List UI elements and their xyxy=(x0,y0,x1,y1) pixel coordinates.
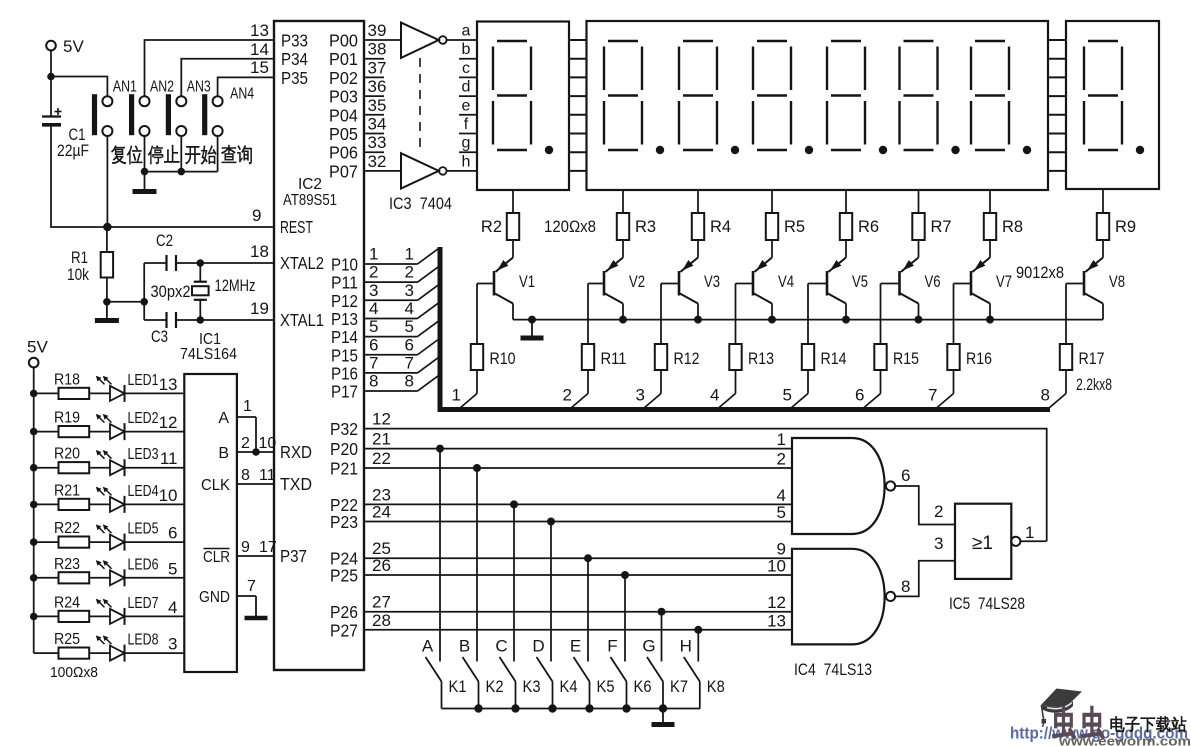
pin stub P04 (35) xyxy=(364,96,386,115)
svg-text:6: 6 xyxy=(855,386,864,405)
svg-text:8: 8 xyxy=(901,577,910,596)
svg-text:13: 13 xyxy=(250,21,269,40)
svg-text:6: 6 xyxy=(901,466,910,485)
svg-text:CLK: CLK xyxy=(201,477,230,494)
svg-text:AN3: AN3 xyxy=(187,79,211,96)
resistor R17 xyxy=(1060,344,1105,394)
svg-text:9012x8: 9012x8 xyxy=(1016,264,1064,282)
svg-text:LED3: LED3 xyxy=(128,446,159,463)
wire tap 8 to bus xyxy=(1041,386,1066,409)
wire tap 6 to bus xyxy=(855,386,880,409)
svg-text:V6: V6 xyxy=(925,273,941,291)
wire P27 line (pin 28) xyxy=(364,611,792,631)
wire node F drop xyxy=(607,571,629,662)
7-segment display module middle (6 digits) xyxy=(587,21,1049,190)
transistor V7 xyxy=(954,240,1013,344)
svg-text:LED1: LED1 xyxy=(128,372,159,389)
svg-text:XTAL2: XTAL2 xyxy=(280,253,324,273)
svg-text:d: d xyxy=(462,79,471,96)
pushbutton AN4 查询 xyxy=(202,86,254,165)
svg-text:www.eeworm.com: www.eeworm.com xyxy=(1058,734,1191,746)
svg-text:K7: K7 xyxy=(670,678,688,696)
svg-text:7: 7 xyxy=(369,353,378,372)
svg-text:28: 28 xyxy=(372,611,391,630)
svg-text:P20: P20 xyxy=(330,439,358,459)
wire node B drop xyxy=(459,464,481,662)
resistor R25 xyxy=(34,631,110,659)
bus thick line P10-P17 xyxy=(440,247,1050,410)
svg-text:K5: K5 xyxy=(597,678,615,696)
svg-text:≥1: ≥1 xyxy=(972,533,993,554)
svg-text:P03: P03 xyxy=(329,87,358,107)
svg-text:1: 1 xyxy=(243,398,252,415)
resistor R24 xyxy=(30,594,110,622)
svg-text:5V: 5V xyxy=(27,338,48,357)
wire P35 pin15 to AN4 xyxy=(218,58,274,96)
svg-text:P32: P32 xyxy=(330,419,358,439)
svg-text:R13: R13 xyxy=(748,350,774,368)
wire IC4a output 6 to IC5 xyxy=(895,466,955,525)
svg-text:R19: R19 xyxy=(54,410,80,427)
svg-text:IC5 74LS28: IC5 74LS28 xyxy=(949,594,1025,613)
svg-text:GND: GND xyxy=(199,589,230,606)
svg-text:R11: R11 xyxy=(601,350,627,368)
resistor R11 xyxy=(582,344,627,394)
crystal 12MHz xyxy=(192,259,256,324)
7-seg digit 3 xyxy=(679,41,739,154)
svg-text:g: g xyxy=(462,135,471,152)
svg-text:R22: R22 xyxy=(54,520,80,537)
7-seg digit 7 xyxy=(971,41,1031,154)
wire tap 4 to bus xyxy=(710,386,735,409)
7-seg digit 1 xyxy=(493,41,553,154)
wire tap 3 to bus xyxy=(636,386,661,409)
svg-text:8: 8 xyxy=(405,372,414,391)
svg-text:E: E xyxy=(570,637,581,656)
resistor R5 xyxy=(766,190,805,240)
svg-text:V3: V3 xyxy=(704,273,720,291)
svg-text:100Ωx8: 100Ωx8 xyxy=(50,664,98,681)
svg-text:30px2: 30px2 xyxy=(151,283,191,301)
ground below buttons xyxy=(133,172,157,192)
resistor R23 xyxy=(30,556,110,584)
svg-text:IC2: IC2 xyxy=(298,176,322,193)
svg-text:P06: P06 xyxy=(329,143,358,163)
resistor R7 xyxy=(912,190,951,240)
7-seg digit 5 xyxy=(827,41,887,154)
wire 5V down to junction xyxy=(47,50,55,80)
svg-text:P13: P13 xyxy=(331,309,358,329)
svg-text:REST: REST xyxy=(280,217,313,237)
svg-text:11: 11 xyxy=(259,467,276,484)
IC1 CLR wire to P37 xyxy=(203,539,277,566)
svg-text:8: 8 xyxy=(369,372,378,391)
svg-text:AT89S51: AT89S51 xyxy=(283,192,337,209)
svg-text:G: G xyxy=(642,637,655,656)
svg-text:12: 12 xyxy=(372,410,391,429)
svg-text:13: 13 xyxy=(159,375,178,394)
switch K1 xyxy=(426,657,467,709)
svg-text:e: e xyxy=(462,97,471,114)
svg-text:AN4: AN4 xyxy=(230,86,254,103)
wire tap 1 to bus xyxy=(452,386,477,409)
svg-text:39: 39 xyxy=(368,21,387,40)
svg-text:27: 27 xyxy=(372,593,391,612)
LED LED3 xyxy=(96,446,185,476)
svg-text:33: 33 xyxy=(368,133,387,152)
svg-text:AN2: AN2 xyxy=(150,79,174,96)
switch K3 xyxy=(500,657,541,709)
svg-text:2: 2 xyxy=(405,263,414,282)
wire segment stub f xyxy=(459,133,477,135)
node 5V supply LEDs xyxy=(27,338,48,654)
IC1 GND pin xyxy=(199,578,268,618)
IC2 left pin names xyxy=(280,31,324,567)
svg-text:P23: P23 xyxy=(330,512,358,532)
pushbutton AN1 复位 xyxy=(92,79,142,165)
svg-text:R5: R5 xyxy=(784,218,805,236)
svg-text:P25: P25 xyxy=(330,566,358,586)
svg-text:8: 8 xyxy=(1041,386,1050,405)
wire node C drop xyxy=(495,500,518,661)
svg-text:R6: R6 xyxy=(858,218,879,236)
svg-text:74LS164: 74LS164 xyxy=(180,346,237,363)
svg-text:14: 14 xyxy=(250,40,269,59)
pushbutton AN3 开始 xyxy=(166,79,217,165)
resistor R13 xyxy=(729,344,774,394)
resistor R12 xyxy=(655,344,700,394)
svg-text:LED2: LED2 xyxy=(128,410,159,427)
svg-text:R15: R15 xyxy=(893,350,919,368)
svg-text:37: 37 xyxy=(368,58,387,77)
svg-text:R7: R7 xyxy=(931,218,952,236)
wire inverter a output to display xyxy=(447,39,477,41)
svg-text:C: C xyxy=(495,637,507,656)
IC1 pin A wire xyxy=(218,398,256,452)
wire AN2-AN4 bottoms common xyxy=(141,136,218,175)
svg-text:9: 9 xyxy=(241,539,250,556)
svg-text:R20: R20 xyxy=(54,446,80,463)
svg-text:R2: R2 xyxy=(481,218,502,236)
svg-text:1: 1 xyxy=(1025,523,1034,542)
wire inverter h output to display xyxy=(447,170,477,172)
svg-text:3: 3 xyxy=(405,281,414,300)
svg-text:P27: P27 xyxy=(330,620,358,640)
watermark text dianzi xiazaizhan xyxy=(1111,716,1125,731)
wire P07 to inverter xyxy=(364,152,401,171)
svg-text:R10: R10 xyxy=(490,350,516,368)
svg-text:12MHz: 12MHz xyxy=(215,277,256,295)
wire ladder between display1 and display2 xyxy=(569,40,587,171)
7-segment display module 8 xyxy=(1066,21,1159,189)
svg-text:P04: P04 xyxy=(329,105,358,125)
svg-text:P15: P15 xyxy=(331,345,358,365)
wire tap 5 to bus xyxy=(783,386,808,409)
svg-text:V1: V1 xyxy=(519,273,535,291)
svg-text:b: b xyxy=(462,41,471,58)
wire P16 to bus xyxy=(364,353,439,373)
ground on collector bus xyxy=(521,320,544,338)
svg-text:5: 5 xyxy=(783,386,792,405)
svg-text:21: 21 xyxy=(372,430,391,449)
svg-text:P11: P11 xyxy=(331,273,358,293)
transistor V3 xyxy=(661,240,720,344)
wire node G drop xyxy=(642,608,665,662)
7-seg digit 6 xyxy=(900,41,960,154)
svg-text:V5: V5 xyxy=(852,273,868,291)
svg-text:9: 9 xyxy=(252,206,261,225)
resistor R9 xyxy=(1097,189,1136,240)
svg-text:3: 3 xyxy=(369,281,378,300)
pin stub P01 (38) xyxy=(364,40,386,59)
svg-text:A: A xyxy=(218,410,229,427)
svg-text:3: 3 xyxy=(934,534,943,553)
svg-text:2: 2 xyxy=(563,386,572,405)
svg-text:LED7: LED7 xyxy=(128,595,159,612)
svg-text:10: 10 xyxy=(767,557,786,576)
svg-text:K1: K1 xyxy=(449,678,467,696)
svg-text:K6: K6 xyxy=(634,678,652,696)
wire C1 to REST rail xyxy=(51,125,274,227)
svg-text:8: 8 xyxy=(241,467,250,484)
inverter IC3b xyxy=(401,153,447,188)
transistor V8 xyxy=(1066,240,1125,344)
wire P33 pin13 to AN2 xyxy=(145,21,275,96)
svg-text:K8: K8 xyxy=(707,678,725,696)
svg-text:K2: K2 xyxy=(486,678,504,696)
svg-text:LED4: LED4 xyxy=(128,483,159,500)
svg-text:R4: R4 xyxy=(710,218,731,236)
svg-text:1: 1 xyxy=(405,245,414,264)
wire segment stub b xyxy=(459,58,477,60)
transistor V1 xyxy=(477,240,535,344)
wire P15 to bus xyxy=(364,335,439,355)
svg-text:2.2kx8: 2.2kx8 xyxy=(1076,376,1112,394)
svg-text:2: 2 xyxy=(777,450,786,469)
resistor R21 xyxy=(30,482,110,510)
NAND gate IC4b xyxy=(792,549,895,645)
LED LED5 xyxy=(96,521,185,551)
resistor R14 xyxy=(802,344,847,394)
wire P25 line (pin 26) xyxy=(364,556,792,576)
wire segment stub e xyxy=(459,114,477,116)
resistor R15 xyxy=(874,344,919,394)
wire AN1 bottom to REST rail xyxy=(103,136,111,231)
wire tap 7 to bus xyxy=(928,386,953,409)
svg-text:10k: 10k xyxy=(67,266,90,284)
LED LED8 xyxy=(96,632,185,662)
resistor R8 xyxy=(984,190,1023,240)
svg-text:LED8: LED8 xyxy=(128,632,159,649)
wire P17 to bus xyxy=(364,372,439,392)
svg-text:4: 4 xyxy=(168,598,177,617)
svg-text:10: 10 xyxy=(259,435,277,452)
svg-text:36: 36 xyxy=(368,77,387,96)
svg-text:B: B xyxy=(218,445,229,462)
svg-text:P26: P26 xyxy=(330,602,358,622)
node 5V supply top-left xyxy=(46,37,84,56)
wire P10 to bus xyxy=(364,245,439,265)
shift register IC1 74LS164 xyxy=(180,331,237,672)
7-seg digit 2 xyxy=(604,41,664,154)
svg-text:120Ωx8: 120Ωx8 xyxy=(544,218,596,236)
svg-text:7: 7 xyxy=(247,578,256,595)
wire P22 line (pin 23) xyxy=(364,485,792,505)
LED LED4 xyxy=(96,483,185,513)
transistor V5 xyxy=(808,240,868,344)
resistor R2 xyxy=(481,190,519,240)
svg-text:1: 1 xyxy=(452,386,461,405)
svg-text:26: 26 xyxy=(372,556,391,575)
svg-text:34: 34 xyxy=(368,115,387,134)
svg-text:24: 24 xyxy=(372,503,391,522)
resistor R6 xyxy=(840,190,879,240)
svg-text:11: 11 xyxy=(160,449,178,468)
svg-text:V4: V4 xyxy=(778,273,794,291)
svg-text:B: B xyxy=(459,637,470,656)
switch K6 xyxy=(611,657,652,709)
transistor V4 xyxy=(736,240,795,344)
resistor R16 xyxy=(947,344,992,394)
wire P11 to bus xyxy=(364,263,439,283)
svg-text:R24: R24 xyxy=(54,594,80,611)
wire P21 line (pin 22) xyxy=(364,449,792,469)
wire segment stub d xyxy=(459,95,477,97)
capacitor C2 30p xyxy=(144,232,274,271)
svg-text:R9: R9 xyxy=(1115,218,1136,236)
wire P24 line (pin 25) xyxy=(364,539,792,559)
wire P23 line (pin 24) xyxy=(364,503,792,523)
svg-text:f: f xyxy=(464,116,469,133)
wire P13 to bus xyxy=(364,299,439,319)
svg-text:C2: C2 xyxy=(156,232,173,250)
wire P14 to bus xyxy=(364,317,439,337)
svg-text:10: 10 xyxy=(159,486,178,505)
svg-text:15: 15 xyxy=(250,58,269,77)
svg-text:A: A xyxy=(422,637,434,656)
svg-text:P33: P33 xyxy=(281,31,308,51)
LED LED1 xyxy=(96,372,185,402)
svg-text:13: 13 xyxy=(767,611,786,630)
ground keys xyxy=(652,709,675,725)
resistor R20 xyxy=(30,446,110,474)
IC1 pin B wire to RXD xyxy=(218,435,276,462)
resistor R19 xyxy=(30,410,110,438)
ground below R1 xyxy=(95,302,119,321)
capacitor C3 30p xyxy=(144,312,274,346)
NOR gate IC5 74LS28 xyxy=(955,504,1047,579)
svg-text:R14: R14 xyxy=(821,350,847,368)
wire node H drop xyxy=(680,626,703,662)
inverter IC3a xyxy=(401,23,447,58)
svg-text:V8: V8 xyxy=(1109,273,1125,291)
svg-text:12: 12 xyxy=(159,413,178,432)
svg-text:R21: R21 xyxy=(54,482,80,499)
svg-text:RXD: RXD xyxy=(280,442,312,462)
svg-text:IC4 74LS13: IC4 74LS13 xyxy=(794,660,872,679)
svg-text:4: 4 xyxy=(405,299,414,318)
IC2 right pin names xyxy=(329,31,358,641)
LED LED7 xyxy=(96,595,185,625)
svg-text:R23: R23 xyxy=(54,556,80,573)
svg-text:7: 7 xyxy=(405,353,414,372)
svg-text:R16: R16 xyxy=(966,350,992,368)
svg-text:R18: R18 xyxy=(54,371,80,388)
wire IC4b output 8 to IC5 xyxy=(895,534,955,596)
svg-text:5: 5 xyxy=(168,559,177,578)
svg-text:3: 3 xyxy=(168,635,177,654)
svg-text:V7: V7 xyxy=(996,273,1012,291)
watermark logo cap xyxy=(1041,689,1083,728)
transistor V2 xyxy=(588,240,645,344)
svg-text:5: 5 xyxy=(405,317,414,336)
svg-text:R8: R8 xyxy=(1002,218,1023,236)
svg-text:R3: R3 xyxy=(635,218,656,236)
svg-text:TXD: TXD xyxy=(280,474,312,494)
svg-text:c: c xyxy=(462,60,470,77)
svg-text:1: 1 xyxy=(777,430,786,449)
svg-text:P10: P10 xyxy=(331,255,358,275)
dashed line omitted inverters xyxy=(419,58,421,152)
resistor R10 xyxy=(471,344,516,394)
svg-text:17: 17 xyxy=(259,539,277,556)
resistor R18 xyxy=(30,371,110,399)
svg-text:6: 6 xyxy=(405,335,414,354)
wire P12 to bus xyxy=(364,281,439,301)
svg-text:P17: P17 xyxy=(331,382,358,402)
svg-text:P12: P12 xyxy=(331,291,358,311)
svg-text:R25: R25 xyxy=(54,631,80,648)
svg-text:P16: P16 xyxy=(331,363,358,383)
svg-text:P00: P00 xyxy=(329,31,358,51)
svg-text:a: a xyxy=(462,23,471,40)
svg-text:7: 7 xyxy=(928,386,937,405)
IC1 CLK wire to TXD xyxy=(201,467,276,494)
svg-text:3: 3 xyxy=(636,386,645,405)
transistor V6 xyxy=(881,240,941,344)
svg-text:18: 18 xyxy=(250,242,269,261)
wire ladder between display2 and display8 xyxy=(1048,40,1066,171)
IC IC2 AT89S51 microcontroller xyxy=(274,21,364,670)
LED LED6 xyxy=(96,556,185,586)
switch K7 xyxy=(647,657,688,709)
wire tap 2 to bus xyxy=(563,386,588,409)
capacitor C1 22uF xyxy=(42,77,89,161)
svg-text:6: 6 xyxy=(168,524,177,543)
svg-text:LED6: LED6 xyxy=(128,556,159,573)
svg-text:V2: V2 xyxy=(629,273,645,291)
svg-text:R1: R1 xyxy=(71,249,88,267)
svg-text:P21: P21 xyxy=(330,459,358,479)
svg-text:F: F xyxy=(607,637,617,656)
LED LED2 xyxy=(96,410,185,440)
pin stub P06 (33) xyxy=(364,133,386,152)
wire node A drop xyxy=(422,445,444,662)
watermark chongchong xyxy=(1053,707,1076,739)
wire node E drop xyxy=(570,554,592,661)
resistor R22 xyxy=(30,520,110,548)
pushbutton AN2 停止 xyxy=(129,79,179,165)
svg-text:P02: P02 xyxy=(329,68,358,88)
svg-text:K3: K3 xyxy=(523,678,541,696)
svg-text:P34: P34 xyxy=(281,49,308,69)
svg-text:R17: R17 xyxy=(1079,350,1105,368)
svg-text:IC3 7404: IC3 7404 xyxy=(389,194,452,213)
svg-text:22µF: 22µF xyxy=(57,142,89,160)
wire keys common line xyxy=(442,704,701,712)
svg-text:5V: 5V xyxy=(63,37,84,56)
svg-text:2: 2 xyxy=(934,502,943,521)
